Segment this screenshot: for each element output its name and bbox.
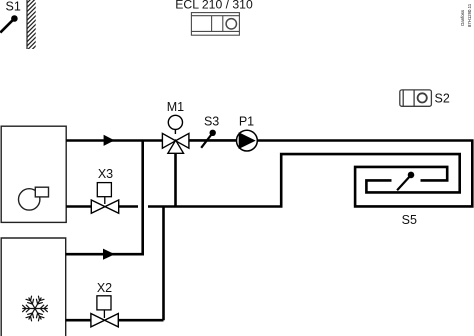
- flow arrow on chilled supply: [103, 249, 115, 260]
- sensor S3 (flow sensor): [201, 130, 216, 148]
- valve X2 body: [91, 314, 118, 327]
- svg-text:S3: S3: [204, 115, 219, 129]
- sensor S2 dial: [418, 93, 427, 102]
- fan symbol inside E1: [19, 187, 49, 210]
- svg-text:M1: M1: [167, 100, 184, 114]
- unit E1 (air heater / fan coil) box: [1, 126, 66, 222]
- unit E2 (chiller) box: [1, 238, 66, 336]
- wire: pipe valve X2 to E2: [66, 319, 91, 322]
- svg-text:ECL 210 / 310: ECL 210 / 310: [175, 0, 253, 12]
- svg-text:X3: X3: [98, 167, 113, 181]
- snowflake symbol inside E2: [23, 296, 48, 321]
- valve X3 stem: [104, 197, 106, 204]
- wire: return pipe from coil (inner spiral) to node A: [148, 154, 460, 206]
- wire: pipe X2 riser to valve X2: [118, 319, 164, 322]
- svg-text:Danfoss: Danfoss: [460, 10, 465, 26]
- sensor S5 (floor sensor): [397, 172, 414, 191]
- wall left edge line: [26, 0, 28, 49]
- svg-text:S1: S1: [6, 0, 21, 13]
- pump P1: [237, 130, 258, 151]
- wire: bypass valve M1 bottom port to return: [174, 153, 177, 207]
- valve X2 actuator: [97, 296, 111, 310]
- valve X2 stem: [103, 310, 105, 318]
- controller U1 ECL box: [191, 13, 239, 36]
- flow arrow on supply pipe: [104, 135, 115, 146]
- wire: supply pipe E1 to valve M1: [66, 139, 163, 142]
- valve M1 actuator circle: [168, 115, 182, 129]
- wire: riser return to valve X2: [162, 207, 165, 321]
- wire: supply pipe P1 to coil (outer spiral): [258, 141, 473, 207]
- sensor S2 (room unit) box: [400, 90, 432, 106]
- wire: chilled supply E2 riser to supply pipe: [66, 141, 143, 255]
- svg-text:S5: S5: [402, 213, 417, 227]
- Danfoss drawing number (vertical small text): [460, 3, 472, 27]
- wire: pipe M1 to pump P1: [189, 139, 238, 142]
- valve X3 actuator: [97, 183, 111, 197]
- svg-text:87H1290.11: 87H1290.11: [467, 3, 472, 27]
- valve M1 stem: [174, 130, 176, 135]
- valve X3 body: [91, 200, 118, 213]
- sensor S1 (outdoor temperature sensor): [0, 15, 17, 32]
- controller U1 dial: [226, 19, 236, 29]
- svg-text:X2: X2: [97, 281, 112, 295]
- wire: return pipe X3 to E1: [66, 205, 91, 208]
- wall (hatched) for S1: [22, 0, 40, 68]
- svg-text:S2: S2: [435, 91, 450, 105]
- wire: return pipe gap crossing to valve X3: [119, 205, 138, 208]
- svg-text:P1: P1: [239, 115, 254, 129]
- valve M1 three-way body: [162, 133, 189, 153]
